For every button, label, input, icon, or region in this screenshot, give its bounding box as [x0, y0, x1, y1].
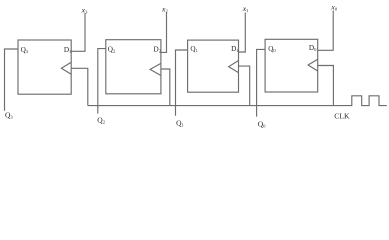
svg-text:Q3: Q3	[5, 111, 13, 120]
svg-text:Q1: Q1	[176, 119, 184, 128]
svg-text:Q1: Q1	[190, 45, 198, 53]
svg-text:Q2: Q2	[108, 45, 116, 53]
svg-text:x3: x3	[81, 5, 88, 14]
svg-text:Q0: Q0	[268, 45, 276, 53]
svg-text:x1: x1	[242, 4, 249, 13]
svg-text:Q0: Q0	[258, 120, 266, 129]
svg-text:CLK: CLK	[334, 112, 350, 121]
svg-text:Q3: Q3	[21, 46, 29, 54]
svg-text:x0: x0	[330, 2, 337, 11]
svg-text:D0: D0	[309, 44, 317, 52]
svg-text:Q2: Q2	[97, 115, 105, 124]
svg-text:x2: x2	[161, 5, 168, 14]
